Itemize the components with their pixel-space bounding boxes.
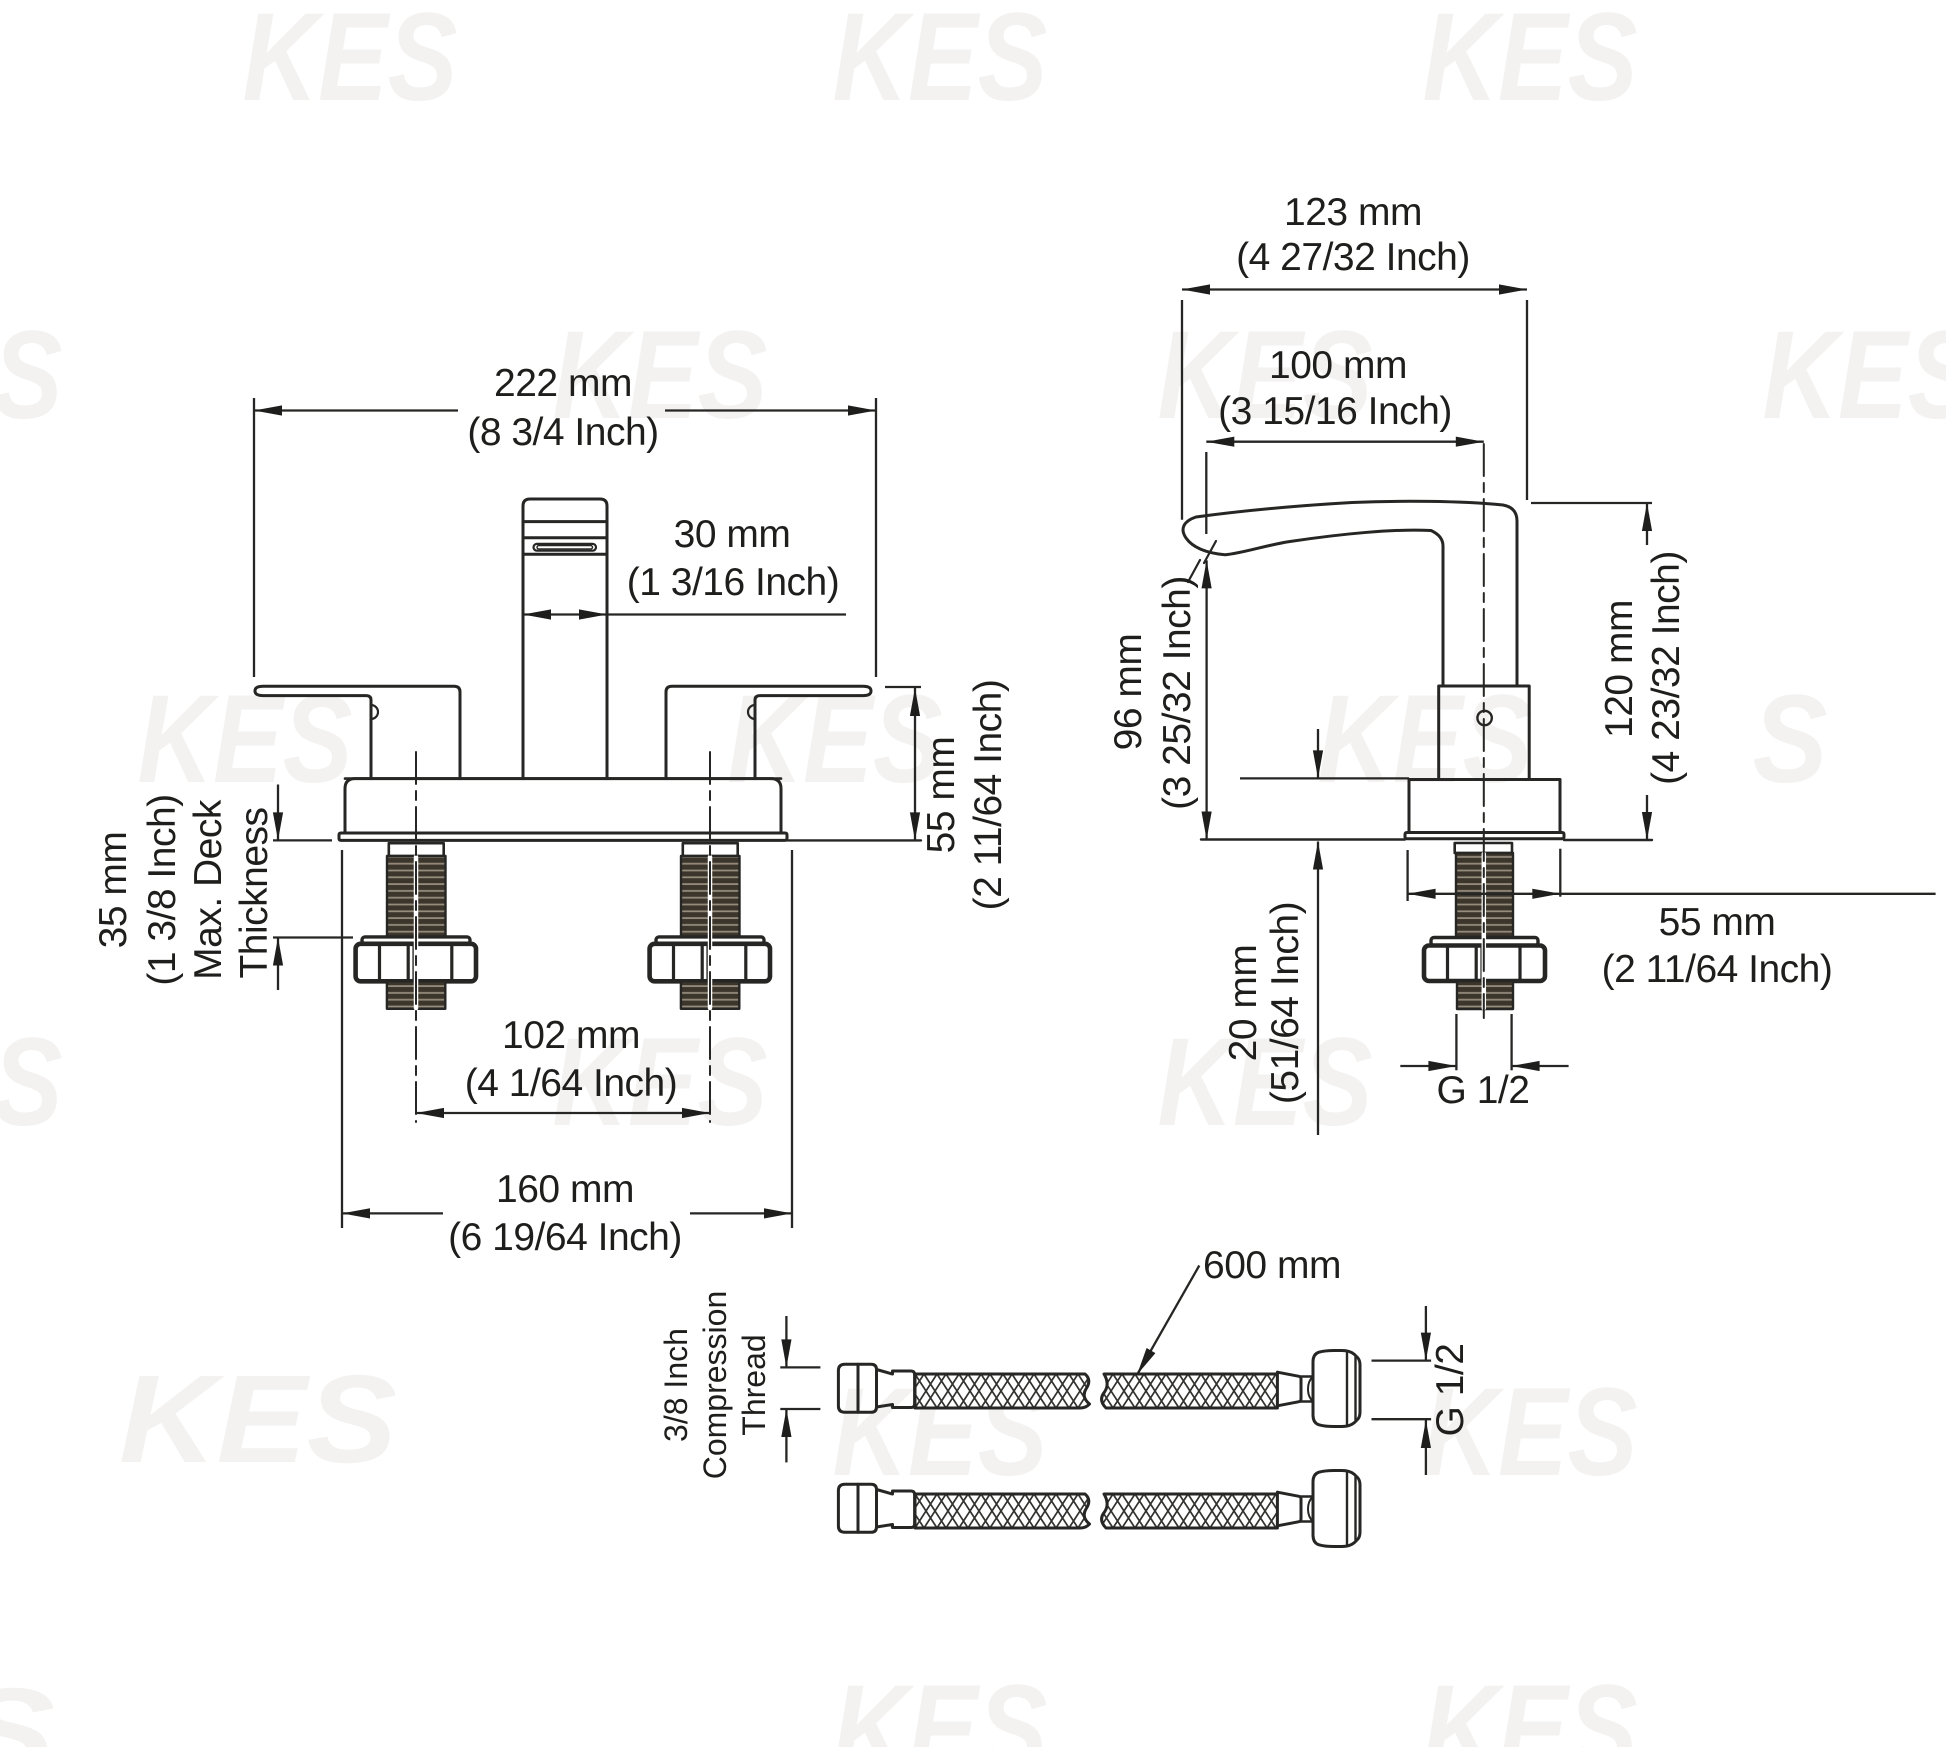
svg-text:120 mm: 120 mm [1598, 600, 1641, 738]
svg-text:KES: KES [138, 670, 353, 809]
svg-text:(2 11/64 Inch): (2 11/64 Inch) [1602, 948, 1833, 991]
svg-text:G 1/2: G 1/2 [1437, 1069, 1530, 1112]
svg-text:KES: KES [1423, 0, 1638, 127]
svg-text:KES: KES [0, 1663, 55, 1747]
svg-text:KES: KES [119, 1350, 397, 1489]
svg-text:KES: KES [833, 0, 1048, 127]
svg-text:G 1/2: G 1/2 [1429, 1344, 1472, 1437]
svg-text:(1 3/16 Inch): (1 3/16 Inch) [627, 561, 839, 604]
svg-text:(8 3/4 Inch): (8 3/4 Inch) [467, 411, 658, 454]
svg-text:160 mm: 160 mm [496, 1168, 634, 1211]
svg-text:35 mm: 35 mm [92, 832, 135, 949]
svg-text:20 mm: 20 mm [1222, 945, 1265, 1062]
svg-text:KES: KES [1763, 306, 1946, 445]
svg-text:600 mm: 600 mm [1203, 1244, 1341, 1287]
svg-text:(6 19/64 Inch): (6 19/64 Inch) [448, 1216, 682, 1259]
svg-text:KES: KES [0, 306, 63, 445]
svg-text:30 mm: 30 mm [674, 513, 791, 556]
svg-text:55 mm: 55 mm [920, 737, 963, 854]
svg-text:96 mm: 96 mm [1107, 634, 1150, 751]
svg-text:KES: KES [1423, 1660, 1638, 1747]
svg-text:222 mm: 222 mm [494, 362, 632, 405]
svg-text:(51/64 Inch): (51/64 Inch) [1264, 902, 1307, 1104]
svg-text:KES: KES [728, 670, 943, 809]
svg-text:(4 27/32 Inch): (4 27/32 Inch) [1236, 236, 1470, 279]
svg-text:Max. Deck: Max. Deck [187, 799, 230, 980]
svg-text:KES: KES [0, 1013, 63, 1152]
svg-text:(4 1/64 Inch): (4 1/64 Inch) [465, 1062, 677, 1105]
svg-text:KES: KES [1318, 670, 1533, 809]
svg-text:123 mm: 123 mm [1284, 191, 1422, 234]
svg-text:102 mm: 102 mm [502, 1014, 640, 1057]
svg-text:KES: KES [833, 1660, 1048, 1747]
svg-text:(1 3/8 Inch): (1 3/8 Inch) [141, 794, 184, 985]
svg-text:(3 25/32 Inch): (3 25/32 Inch) [1156, 576, 1199, 810]
svg-text:(3 15/16 Inch): (3 15/16 Inch) [1218, 390, 1452, 433]
svg-text:55 mm: 55 mm [1659, 901, 1776, 944]
svg-text:(4 23/32 Inch): (4 23/32 Inch) [1645, 551, 1688, 785]
svg-text:Thickness: Thickness [233, 807, 276, 978]
svg-text:S: S [1753, 670, 1828, 809]
svg-text:100 mm: 100 mm [1269, 344, 1407, 387]
svg-text:Compression: Compression [697, 1291, 733, 1480]
svg-text:3/8 Inch: 3/8 Inch [658, 1328, 694, 1442]
svg-text:KES: KES [243, 0, 458, 127]
svg-text:(2 11/64 Inch): (2 11/64 Inch) [967, 680, 1010, 911]
svg-text:Thread: Thread [736, 1334, 772, 1435]
